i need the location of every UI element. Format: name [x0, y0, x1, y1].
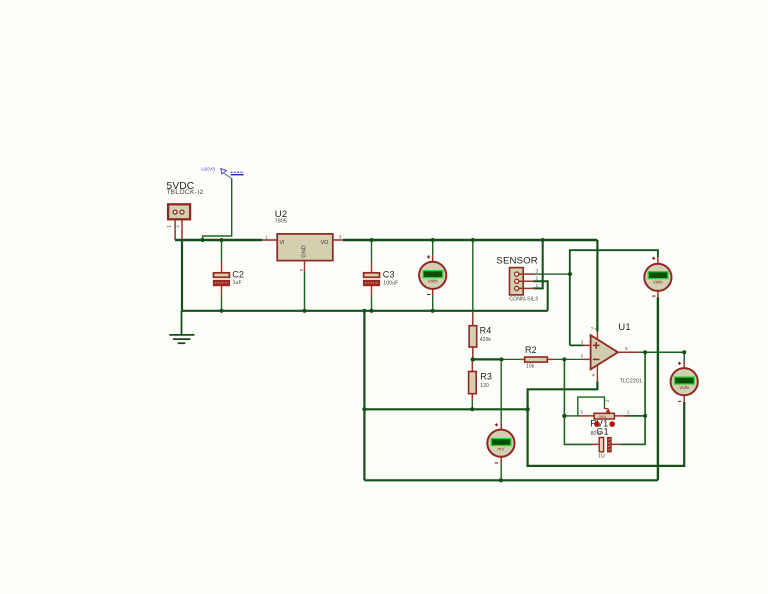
wire ground rail [182, 310, 548, 312]
wire sensor pin1 riser [533, 240, 543, 288]
svg-text:3: 3 [580, 410, 583, 416]
svg-text:1: 1 [627, 410, 630, 416]
wire meter2 negative drop x658 [657, 298, 659, 481]
svg-text:1: 1 [536, 283, 539, 289]
svg-text:U2(VI): U2(VI) [201, 166, 215, 172]
wire top +5V rail [175, 239, 597, 241]
resistor R4 [469, 312, 477, 359]
svg-text:TBLOCK-I2: TBLOCK-I2 [166, 189, 203, 196]
svg-text:1: 1 [265, 235, 268, 241]
svg-text:2: 2 [175, 225, 181, 228]
wire sensor3 net vertical and to meter2 [570, 250, 658, 345]
wire line-A horizontal y409 [364, 408, 527, 410]
wire C3 riser [371, 240, 373, 311]
voltmeter VM1 [419, 255, 446, 296]
regulator U2 7805 [262, 234, 343, 272]
svg-text:6: 6 [625, 346, 628, 352]
svg-text:+0.00: +0.00 [427, 272, 439, 277]
svg-text:4: 4 [592, 373, 595, 379]
wire R2 to opamp minus [553, 358, 583, 360]
wire U2 power drop to op-amp pin7 [596, 240, 598, 332]
svg-text:VI: VI [280, 240, 285, 246]
voltmeter VM3 right [671, 362, 698, 403]
voltmeter VM2 top right [644, 257, 671, 298]
wire op-amp output [639, 352, 685, 361]
svg-text:Volts: Volts [653, 280, 664, 285]
wire R4 riser from rail [472, 240, 474, 312]
svg-text:420k: 420k [480, 337, 492, 343]
svg-text:+0.00: +0.00 [495, 440, 507, 445]
svg-text:CONN-SIL3: CONN-SIL3 [509, 297, 538, 303]
svg-text:SENSOR: SENSOR [496, 255, 537, 266]
svg-text:GND: GND [302, 245, 308, 257]
svg-text:3: 3 [536, 269, 539, 275]
wire op-amp pin4 to ground path [528, 382, 685, 466]
voltage probe U2(VI) [201, 166, 244, 178]
wire feedback vertical x564 [564, 359, 592, 444]
svg-text:120: 120 [480, 383, 489, 389]
svg-text:TLC2201: TLC2201 [620, 378, 642, 384]
svg-text:Volts: Volts [679, 385, 690, 390]
resistor R2 [521, 357, 554, 362]
wire probe net [203, 178, 232, 240]
wire meter1 risers [432, 240, 434, 311]
svg-text:3: 3 [581, 340, 584, 346]
ground [169, 311, 194, 343]
potentiometer RV1 [579, 399, 630, 419]
svg-text:+0.00: +0.00 [679, 379, 691, 384]
wire RV1 pin1 to output branch [620, 352, 645, 444]
svg-text:2: 2 [536, 276, 539, 282]
svg-text:R4: R4 [480, 325, 492, 335]
svg-text:2: 2 [581, 354, 584, 360]
svg-text:R3: R3 [480, 372, 492, 382]
svg-text:VO: VO [321, 240, 329, 246]
op-amp U1 TLC2201 [581, 327, 639, 382]
wire tblock pin2 ground drop [181, 240, 183, 311]
svg-text:1: 1 [167, 225, 173, 228]
svg-text:7: 7 [591, 327, 594, 333]
svg-text:C2: C2 [232, 270, 244, 280]
svg-text:+0.00: +0.00 [652, 273, 664, 278]
capacitor C2 [214, 262, 230, 297]
svg-text:mV: mV [498, 446, 506, 451]
svg-text:C3: C3 [383, 270, 395, 280]
svg-text:100uF: 100uF [383, 280, 398, 286]
svg-text:10k: 10k [526, 363, 535, 369]
connector SENSOR CONN-SIL3 [510, 268, 539, 295]
wire RV1 wiper step [578, 397, 605, 416]
svg-text:2: 2 [299, 268, 305, 271]
svg-text:1uF: 1uF [233, 280, 242, 286]
wire R3 bottom to line-A [471, 401, 473, 410]
wire sensor pin3 horizontal [533, 273, 570, 275]
wire sensor pin2 to ground [533, 281, 548, 311]
wire RV1 pin3 [564, 415, 580, 417]
svg-text:2: 2 [605, 399, 611, 402]
svg-text:3: 3 [339, 235, 342, 241]
terminal block J1 5VDC [167, 204, 190, 240]
svg-text:G1: G1 [596, 427, 609, 437]
wire node row y359 [473, 358, 502, 360]
wire meter4 riser [500, 359, 502, 480]
wire bottom rail y480 [364, 479, 658, 481]
svg-text:R2: R2 [525, 345, 537, 355]
svg-text:Volts: Volts [428, 279, 439, 284]
svg-text:1U: 1U [598, 454, 605, 460]
wire U2 gnd pin drop [304, 272, 306, 311]
wire node to R2 [502, 358, 521, 360]
svg-text:7805: 7805 [275, 219, 287, 225]
svg-text:U1: U1 [618, 322, 631, 333]
wire C2 riser [221, 240, 223, 311]
battery G1 [592, 438, 620, 452]
wire mid vertical x364 [363, 311, 365, 481]
pot adjust dots [594, 421, 600, 427]
resistor R3 [469, 361, 477, 401]
capacitor C3 [364, 262, 380, 297]
voltmeter VM4 mV [487, 423, 514, 464]
